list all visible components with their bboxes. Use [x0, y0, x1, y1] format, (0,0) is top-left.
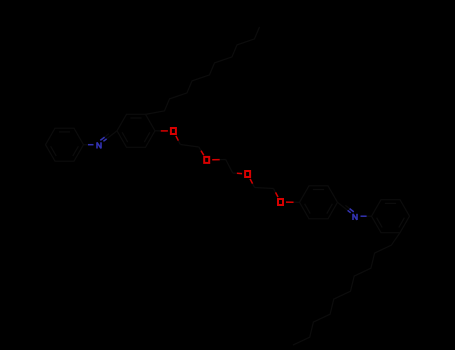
- atom label O2: [204, 157, 209, 163]
- glycol bond c-d: [226, 160, 233, 174]
- bond f-O4 (half red): [274, 189, 279, 198]
- bond O3-e (half red): [250, 179, 255, 188]
- bond O4-ring2 (half red): [286, 201, 300, 203]
- benzene ring 3 (right N-phenyl): [372, 200, 410, 233]
- bond b-O2 (half red): [199, 147, 204, 155]
- bond O2-c (half red): [212, 159, 226, 161]
- atom label O1: [171, 128, 176, 134]
- glycol bond e-f: [255, 188, 274, 189]
- glycol bond a-b: [180, 145, 198, 148]
- bond N2-ring3 (half blue): [361, 215, 372, 217]
- atom label O3: [245, 171, 250, 177]
- bond d-O3 (half red): [233, 172, 242, 175]
- atom label N1: [97, 142, 101, 148]
- benzene ring 1 (left oxy-aryl): [117, 114, 155, 147]
- imine bond ring2=N2 with CH (half blue): [338, 202, 354, 213]
- bond O1-CH2a (half red): [176, 136, 181, 145]
- imine bond ring1=N1 with CH (half blue): [100, 131, 117, 142]
- atom label N2: [353, 214, 357, 220]
- benzene ring 0 (left N-phenyl): [46, 128, 84, 161]
- bond ring1-O1 (half red): [155, 130, 168, 132]
- right decyl chain on ring3: [293, 233, 400, 345]
- bond ring0-N1 (half blue): [84, 144, 94, 146]
- left decyl chain on ring1: [146, 27, 260, 115]
- benzene ring 2 (right oxy-aryl): [300, 186, 338, 219]
- atom label O4: [278, 199, 283, 205]
